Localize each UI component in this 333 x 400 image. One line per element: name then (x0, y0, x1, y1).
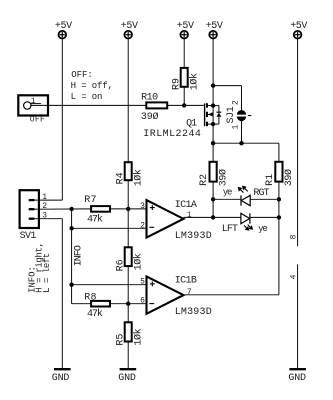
svg-text:ye: ye (223, 188, 232, 198)
wire SV1 pin3 to GND rail (39, 218, 62, 220)
svg-text:39Ø: 39Ø (217, 169, 229, 186)
resistor R2 body (210, 162, 217, 182)
junction Q1 source top (211, 83, 215, 87)
svg-text:Q1: Q1 (186, 118, 197, 129)
junction LFT row right (277, 215, 281, 219)
svg-text:INFO: INFO (74, 245, 85, 266)
svg-text:1Øk: 1Øk (132, 328, 144, 345)
resistor R7 body (91, 206, 110, 212)
svg-text:R9: R9 (171, 78, 182, 90)
resistor R9 body (181, 68, 188, 87)
svg-text:R7: R7 (84, 195, 96, 206)
connector SV1 body (20, 190, 39, 228)
LED RGT yellow (238, 186, 250, 206)
svg-text:R8: R8 (84, 292, 96, 303)
svg-text:ye: ye (258, 224, 267, 234)
wire +5V rail down to SV1 pin1 corner (61, 39, 63, 200)
svg-text:1Øk: 1Øk (188, 73, 200, 90)
svg-text:L = left: L = left (42, 253, 52, 293)
SV1 pin bars (29, 200, 39, 219)
junction Q1 source (211, 103, 215, 107)
switch S1 OFF body (18, 95, 48, 115)
wire +5V#4 down to Q1 source node (212, 39, 214, 86)
junction Q1 drain (211, 122, 215, 126)
supply +5V symbol P4 (209, 31, 217, 39)
wire R8 right to IC1B pin6 (110, 303, 147, 305)
svg-text:1: 1 (231, 125, 240, 130)
resistor R6 body (125, 247, 132, 266)
wire node to R6 top (127, 209, 129, 247)
junction R6/R8/R5 node (126, 302, 130, 306)
junction R2 bottom RGT row (211, 197, 215, 201)
wire IC1B output row (183, 294, 279, 296)
svg-text:+5V: +5V (55, 21, 72, 32)
svg-text:1: 1 (42, 193, 47, 202)
resistor R4 body (125, 162, 132, 180)
wire drain bus horizontal (213, 142, 279, 144)
wire SV1 pin2 to R7 INFO net (39, 208, 91, 210)
svg-text:SJ1: SJ1 (226, 106, 237, 123)
svg-text:+5V: +5V (290, 21, 307, 32)
junction INFO at R7 row (69, 207, 73, 211)
wire node to R5 top (127, 304, 129, 323)
wire INFO vertical (71, 209, 73, 304)
svg-text:2: 2 (42, 202, 47, 211)
svg-text:LFT: LFT (222, 224, 238, 235)
solder jumper SJ1 body (237, 110, 251, 121)
junction R4/R7/R6 node (126, 207, 130, 211)
svg-text:7: 7 (187, 288, 192, 297)
switch S1 pin lead (31, 104, 48, 106)
wire +5V#2 down to R4 (127, 39, 129, 162)
supply +5V symbol P5 (294, 31, 302, 39)
ground symbol GND (SV1 pin3 net) (54, 368, 71, 370)
wire R2 bottom to LED rows (212, 182, 214, 218)
plus input marker IC1A (150, 207, 155, 209)
wire R9 bottom to gate net (183, 87, 185, 106)
ground symbol GND (IC pin4 net) (289, 368, 306, 370)
junction SJ1 bottom (239, 141, 243, 145)
resistor R5 body (125, 322, 132, 341)
svg-text:1: 1 (31, 97, 36, 106)
wire IC1A output to LFT LED row (184, 216, 242, 218)
svg-text:3: 3 (140, 202, 145, 211)
svg-text:+5V: +5V (121, 21, 138, 32)
wire R4 bottom to node at R7/pin3 (127, 180, 129, 209)
svg-text:OFF: OFF (30, 116, 45, 125)
wire R10 to R9 node to Q1 gate (167, 104, 204, 106)
wire SJ1 bottom to drain bus (241, 121, 243, 144)
svg-text:H = off,: H = off, (71, 81, 113, 91)
wire Q1 source node vertical through transistor to drain bus (212, 86, 214, 162)
svg-text:1: 1 (187, 211, 192, 220)
svg-text:2: 2 (140, 221, 145, 230)
svg-text:GND: GND (288, 373, 306, 384)
wire +5V#5 rail to LM393 power pin 8 stub (297, 39, 299, 246)
svg-text:IC1A: IC1A (175, 200, 197, 211)
switch S1 contact circle (24, 102, 31, 109)
svg-text:+5V: +5V (177, 21, 194, 32)
svg-text:GND: GND (52, 373, 70, 384)
junction drain bus left (211, 141, 215, 145)
svg-text:+5V: +5V (206, 21, 223, 32)
svg-text:IRLML2244: IRLML2244 (143, 129, 201, 140)
svg-text:1Øk: 1Øk (132, 169, 144, 186)
transistor Q1 IRLML2244 p-mosfet (205, 103, 222, 126)
svg-text:R2: R2 (199, 174, 210, 186)
op-amp comparator IC1A triangle (147, 200, 184, 238)
svg-text:3: 3 (42, 212, 47, 221)
svg-text:SV1: SV1 (20, 231, 37, 242)
switch S1 pin 1 lead line (30, 103, 41, 105)
supply +5V symbol P3 (180, 31, 188, 39)
plus input marker IC1B (150, 283, 155, 285)
wire R1 bottom down through LED rows to IC1B output (278, 182, 280, 295)
wire IC1B pin5 to INFO (72, 284, 147, 286)
svg-text:RGT: RGT (253, 188, 269, 199)
junction INFO at pin5 row (69, 283, 73, 287)
junction R1 bottom RGT row (277, 197, 281, 201)
svg-text:LM393D: LM393D (175, 307, 212, 318)
wire INFO corner to R8 (72, 303, 92, 305)
svg-text:R6: R6 (115, 259, 126, 271)
wire IC1A pin2 to INFO (72, 227, 147, 229)
svg-text:4: 4 (289, 274, 298, 279)
svg-text:R4: R4 (115, 172, 126, 184)
minus input marker IC1B (149, 303, 154, 305)
supply +5V symbol P1 (59, 31, 67, 39)
svg-text:1Øk: 1Øk (132, 253, 144, 270)
svg-text:L = on: L = on (71, 92, 103, 102)
wire R7 right to IC1A pin3 (110, 208, 147, 210)
wire R5 bottom to GND (127, 342, 129, 370)
svg-text:LM393D: LM393D (175, 231, 212, 242)
svg-text:R1: R1 (265, 174, 276, 186)
svg-text:8: 8 (289, 234, 298, 239)
svg-text:2: 2 (231, 100, 240, 105)
svg-text:R10: R10 (141, 93, 158, 104)
op-amp comparator IC1B triangle (147, 276, 184, 313)
svg-text:5: 5 (140, 277, 145, 286)
minus input marker IC1A (149, 226, 154, 228)
svg-text:39Ø: 39Ø (283, 169, 295, 186)
wire R6 bottom to node pin6 row (127, 266, 129, 304)
wire OFF switch to R10 gate net (48, 104, 146, 106)
wire RGT LED row (213, 198, 241, 200)
svg-text:OFF:: OFF: (71, 70, 92, 80)
svg-text:GND: GND (118, 373, 136, 384)
svg-text:47k: 47k (87, 308, 103, 320)
wire drain bus corner down to R1 (278, 143, 280, 162)
resistor R10 body (146, 102, 167, 108)
wire source node to SJ1 top (213, 85, 241, 87)
svg-text:39Ø: 39Ø (141, 111, 159, 123)
wire LM393 ground pin 4 stub to GND (297, 264, 299, 369)
resistor R1 body (275, 162, 282, 182)
resistor R8 body (91, 301, 110, 307)
junction INFO at pin2 row (69, 226, 73, 230)
svg-text:6: 6 (140, 297, 145, 306)
junction gate/R9 node (182, 103, 186, 107)
junction LFT row left (211, 215, 215, 219)
svg-text:R5: R5 (115, 334, 126, 346)
wire +5V#3 down to R9 (183, 39, 185, 68)
svg-text:IC1B: IC1B (175, 276, 197, 287)
svg-text:47k: 47k (87, 213, 103, 225)
ground symbol GND (R5 net) (120, 368, 137, 370)
supply +5V symbol P2 (124, 31, 132, 39)
LED LFT yellow (241, 213, 253, 230)
